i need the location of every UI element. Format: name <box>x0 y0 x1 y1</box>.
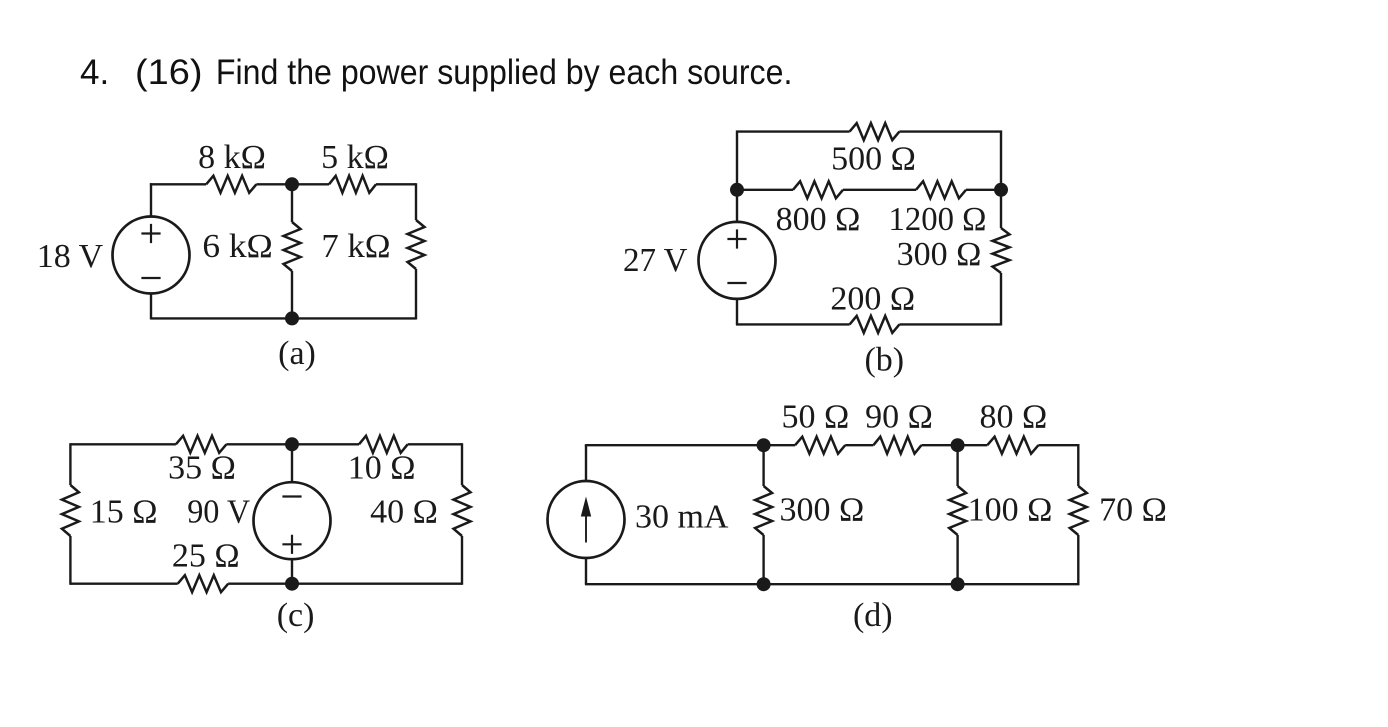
svg-text:7 kΩ: 7 kΩ <box>321 228 390 265</box>
svg-text:(c): (c) <box>277 597 315 634</box>
svg-text:300 Ω: 300 Ω <box>780 491 865 528</box>
wire bottom segment source to node1 (d) <box>585 583 764 585</box>
svg-text:1200 Ω: 1200 Ω <box>889 201 987 238</box>
svg-text:30 mA: 30 mA <box>635 498 729 535</box>
wire right branch upper (b) <box>1000 190 1002 228</box>
wire right branch lower (d) <box>958 535 1079 584</box>
plus sign (b) <box>727 229 746 248</box>
wire top-right segment (a) <box>376 183 416 185</box>
wire top segment between 90 and 80 (d) <box>921 444 987 446</box>
node dot right (b) <box>994 183 1008 197</box>
minus sign (a) <box>141 277 160 279</box>
wire middle branch lower (a) <box>291 271 293 318</box>
wire bottom-right segment (b) <box>899 323 1001 325</box>
resistor 15 Ohm (c) <box>62 485 79 536</box>
plus sign (a) <box>141 224 160 243</box>
node dot top (a) <box>285 177 299 191</box>
svg-text:8 kΩ: 8 kΩ <box>198 139 266 176</box>
resistor 35 Ohm (c) <box>176 436 227 453</box>
wire top segment between 50 and 90 (d) <box>845 444 873 446</box>
node dot top node1 (d) <box>757 438 771 452</box>
svg-text:(a): (a) <box>278 335 316 372</box>
wire bottom (a) <box>151 317 416 319</box>
wire branch 300 lower (d) <box>762 535 764 584</box>
svg-text:(16): (16) <box>135 53 203 92</box>
minus sign (b) <box>727 282 746 284</box>
wire top-middle segment (c) <box>226 443 359 445</box>
svg-text:200 Ω: 200 Ω <box>830 281 915 318</box>
wire middle branch upper (a) <box>291 184 293 222</box>
wire source top lead (d) <box>585 445 587 481</box>
svg-text:(b): (b) <box>864 342 904 379</box>
wire right branch upper (a) <box>415 183 417 220</box>
resistor 40 Ohm (c) <box>454 485 471 536</box>
svg-text:35 Ω: 35 Ω <box>168 450 236 487</box>
wire source top lead (b) <box>736 190 738 222</box>
resistor 70 Ohm (d) <box>1070 486 1087 535</box>
wire source bottom lead (b) <box>736 299 738 325</box>
wire source bottom lead (d) <box>585 558 587 584</box>
resistor 800 Ohm (b) <box>793 181 843 198</box>
node dot bottom (c) <box>285 577 299 591</box>
wire left branch lower (c) <box>69 536 71 585</box>
resistor 500 Ohm (b) <box>850 123 900 140</box>
wire branch 300 upper (d) <box>762 445 764 486</box>
wire top-left segment (b) <box>737 132 850 190</box>
wire top-right segment (d) <box>1038 445 1078 486</box>
node dot left (b) <box>730 183 744 197</box>
resistor 80 Ohm (d) <box>987 437 1038 454</box>
wire bottom-left segment (b) <box>736 323 850 325</box>
wire branch 100 lower (d) <box>956 535 958 584</box>
current source 30 mA circle (d) <box>548 481 625 558</box>
wire bottom-right segment (c) <box>228 583 462 585</box>
svg-text:100 Ω: 100 Ω <box>968 491 1053 528</box>
resistor 7 kOhm (a) <box>408 220 425 269</box>
svg-text:300 Ω: 300 Ω <box>897 236 982 273</box>
svg-text:Find the power supplied by eac: Find the power supplied by each source. <box>216 53 793 92</box>
svg-text:10 Ω: 10 Ω <box>348 450 416 487</box>
plus sign (c) <box>282 535 301 554</box>
wire bottom segment node1 to node2 (d) <box>764 583 958 585</box>
svg-text:27 V: 27 V <box>623 242 688 279</box>
resistor 300 Ohm (b) <box>993 228 1010 273</box>
resistor 8 kOhm (a) <box>206 176 256 193</box>
svg-text:800 Ω: 800 Ω <box>776 201 861 238</box>
svg-text:70 Ω: 70 Ω <box>1099 491 1167 528</box>
wire top-right segment (c) <box>408 443 462 445</box>
svg-text:90 Ω: 90 Ω <box>865 398 933 435</box>
svg-text:40 Ω: 40 Ω <box>370 493 438 530</box>
resistor 10 Ohm (c) <box>359 436 408 453</box>
voltage source 27 V circle (b) <box>699 222 776 299</box>
node dot top node2 (d) <box>951 438 965 452</box>
wire source bottom lead (a) <box>150 294 152 320</box>
wire right branch upper (c) <box>461 443 463 485</box>
svg-text:50 Ω: 50 Ω <box>782 398 850 435</box>
wire source top lead (a) <box>150 183 152 216</box>
resistor 1200 Ohm (b) <box>916 181 966 198</box>
resistor 200 Ohm (b) <box>850 316 900 333</box>
voltage source 90 V circle (c) <box>254 482 331 559</box>
voltage source 18 V circle (a) <box>113 217 190 294</box>
svg-text:500 Ω: 500 Ω <box>831 141 916 178</box>
node dot bottom (a) <box>285 311 299 325</box>
resistor 6 kOhm (a) <box>284 222 301 271</box>
svg-text:5 kΩ: 5 kΩ <box>321 139 389 176</box>
wire bottom-left segment (c) <box>70 583 177 585</box>
node dot bottom node2 (d) <box>951 577 965 591</box>
wire left branch upper (c) <box>69 443 71 485</box>
wire middle-left lead (b) <box>737 189 793 191</box>
wire top-middle segment (a) <box>256 183 329 185</box>
resistor 50 Ohm (d) <box>795 437 845 454</box>
resistor 90 Ohm (d) <box>873 437 921 454</box>
wire right branch lower (b) <box>1000 273 1002 326</box>
wire middle-right segment (b) <box>966 189 1001 191</box>
wire branch 100 upper (d) <box>956 445 958 486</box>
resistor 25 Ohm (c) <box>178 575 229 592</box>
wire top-right segment (b) <box>899 132 1001 190</box>
node dot top (c) <box>285 437 299 451</box>
svg-text:90 V: 90 V <box>187 493 250 530</box>
svg-text:4.: 4. <box>80 53 109 92</box>
svg-text:(d): (d) <box>853 597 893 634</box>
wire source bottom lead (c) <box>291 559 293 584</box>
svg-text:6 kΩ: 6 kΩ <box>202 228 273 265</box>
wire right branch lower (a) <box>415 269 417 320</box>
wire middle-center segment (b) <box>843 189 916 191</box>
resistor 5 kOhm (a) <box>329 176 376 193</box>
wire source top lead (c) <box>291 444 293 482</box>
svg-text:80 Ω: 80 Ω <box>980 398 1048 435</box>
wire top-left segment (c) <box>70 443 175 445</box>
node dot bottom node1 (d) <box>757 577 771 591</box>
resistor 300 Ohm (d) <box>755 486 772 535</box>
wire right branch lower (c) <box>461 536 463 585</box>
svg-text:18 V: 18 V <box>37 238 104 275</box>
current source arrow (d) <box>585 514 587 543</box>
svg-text:25 Ω: 25 Ω <box>172 537 240 574</box>
minus sign (c) <box>282 495 301 497</box>
resistor 100 Ohm (d) <box>949 486 966 535</box>
circuit (a) : wire top-left segment <box>150 183 206 185</box>
svg-text:15 Ω: 15 Ω <box>90 493 158 530</box>
wire top-left segment (d) <box>586 444 795 445</box>
